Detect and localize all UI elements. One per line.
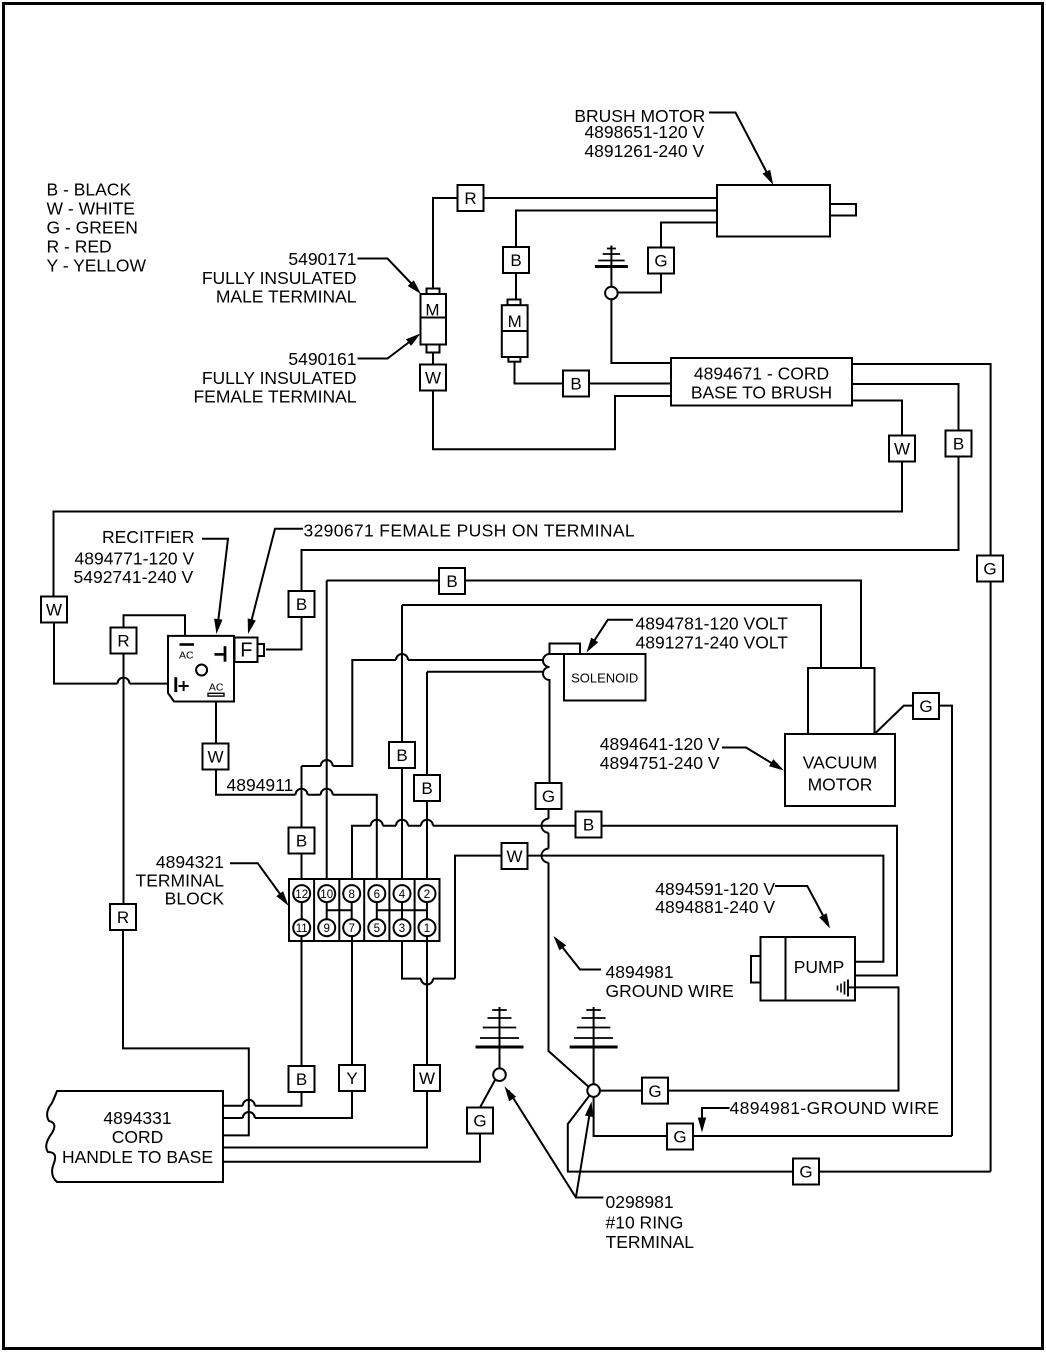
node ring terminal 2 [587,1084,600,1097]
terminal box G3 [536,783,562,809]
svg-text:G: G [983,560,996,579]
svg-text:W: W [46,601,62,620]
svg-text:12: 12 [295,889,308,901]
svg-text:B: B [583,816,594,835]
wire G: cord box to right edge [852,364,991,1172]
leader arrow to F terminal [250,529,303,627]
svg-text:G: G [473,1112,486,1131]
wire G: ring 2 to pump [600,987,899,1090]
terminal box B2 [563,371,589,397]
svg-text:G: G [654,252,667,271]
svg-text:GROUND WIRE: GROUND WIRE [606,981,734,1001]
leader arrow down to ground wire [702,1108,730,1124]
ground symbol bottom left [499,1007,501,1068]
svg-text:MALE TERMINAL: MALE TERMINAL [216,287,357,307]
svg-text:4894671 - CORD: 4894671 - CORD [694,364,829,384]
leader arrow to terminal block [230,863,286,901]
wire B: M2 to cord box [515,362,672,384]
wire W: terminal 3 to pump [402,856,883,979]
wire G: vacuum motor to G box [875,706,914,734]
wire B: terminal 8 to pump [352,826,897,976]
leader arrow to ring terminal 1 [509,1091,604,1198]
svg-text:5492741-240 V: 5492741-240 V [74,567,194,587]
terminal box G4 [913,693,939,719]
wire B: solenoid feed upper [302,660,544,766]
svg-text:11: 11 [296,923,308,935]
wire G: cord handle to ring terminal 1 [223,1080,495,1162]
svg-text:4894751-240 V: 4894751-240 V [600,753,720,773]
svg-text:4894911: 4894911 [227,775,294,795]
svg-text:4894641-120 V: 4894641-120 V [600,734,720,754]
svg-text:B: B [570,375,581,394]
ground symbol top [610,246,612,288]
svg-text:#10 RING: #10 RING [606,1213,684,1233]
hop ground wire over B wire [542,819,549,833]
leader arrow to brush motor [709,113,770,180]
wire G: vacuum motor ground down [939,706,952,1136]
terminal M2 male/female pair [508,300,521,306]
terminal box B8 [414,775,440,801]
svg-text:B: B [421,779,432,798]
component 4894321 terminal block [289,879,440,941]
wire W: cord box to left side [54,401,903,684]
wire G: ring 2 to right edge [568,1096,991,1172]
svg-text:G: G [648,1082,661,1101]
svg-text:R: R [117,632,129,651]
wire G: brush motor to ground node [618,223,717,293]
pump M2 [761,937,856,1001]
terminal box W4 [203,744,229,770]
leader arrow to male terminal [358,259,418,291]
svg-text:F: F [240,639,252,661]
hop 4894911 over V326 [321,789,333,795]
svg-text:AC: AC [209,682,224,694]
svg-text:CORD: CORD [112,1127,164,1147]
leader arrow to solenoid [590,620,634,648]
svg-text:Y: Y [346,1069,357,1088]
svg-text:W: W [425,369,441,388]
terminal box G2 [977,556,1003,582]
solenoid coil and tab [550,644,581,655]
terminal box B6 [289,828,315,854]
svg-text:G: G [542,787,555,806]
svg-text:6: 6 [374,889,380,901]
wire B: terminal 12 riser [301,766,303,885]
terminal box B7 [389,742,415,768]
terminal box B9 [576,812,602,838]
svg-text:5490161: 5490161 [288,349,356,369]
svg-text:RECITFIER: RECITFIER [102,527,194,547]
svg-text:W - WHITE: W - WHITE [47,199,135,219]
svg-text:HANDLE TO BASE: HANDLE TO BASE [62,1147,213,1167]
terminal box R3 [110,904,136,930]
svg-text:FULLY INSULATED: FULLY INSULATED [202,368,357,388]
hop wire W over R wire [118,678,130,684]
wire R: R box to rectifier [124,615,186,635]
node ring terminal top [605,287,618,300]
terminal box G8 [793,1159,819,1185]
rectifier AC mark top [180,643,195,646]
svg-text:0298981: 0298981 [606,1192,674,1212]
leader arrow to rectifier [202,539,228,627]
svg-text:4891261-240 V: 4891261-240 V [584,141,704,161]
wire R: brush motor to male terminal [433,198,717,289]
wire G: node down to cord box [611,299,671,363]
svg-text:G: G [673,1128,686,1147]
leader arrow to ring terminal 2 [576,1107,591,1198]
component 4894671 cord base to brush [671,358,852,406]
terminal box B1 [503,247,529,273]
terminal box W6 [414,1065,440,1091]
terminal box W2 [889,436,915,462]
leader arrow to female terminal [358,337,417,359]
hop upper solenoid wire over V402 [396,654,408,660]
svg-text:W: W [207,748,223,767]
brush motor shaft [830,204,856,216]
svg-text:FULLY INSULATED: FULLY INSULATED [202,268,357,288]
svg-text:G: G [799,1163,812,1182]
svg-text:R: R [464,189,476,208]
leader arrow to ground wire [558,941,602,970]
svg-text:B: B [396,746,407,765]
terminal box W1 [420,365,446,391]
svg-text:4894781-120 VOLT: 4894781-120 VOLT [636,614,789,634]
rectifier center circle [196,665,207,676]
brush motor [717,185,830,237]
svg-text:G - GREEN: G - GREEN [47,218,138,238]
terminal box W5 [502,843,528,869]
solenoid K1 [564,654,646,701]
terminal box W3 [41,597,67,623]
pump ground mark [837,986,839,991]
terminal box R2 [111,628,137,654]
svg-text:TERMINAL: TERMINAL [136,871,225,891]
svg-text:3290671 FEMALE PUSH ON TERMINA: 3290671 FEMALE PUSH ON TERMINAL [304,521,635,541]
svg-text:4894591-120 V: 4894591-120 V [655,879,775,899]
svg-text:8: 8 [348,889,354,901]
svg-text:R - RED: R - RED [47,237,112,257]
component 4894331 cord handle to base [46,1091,223,1182]
rectifier U1 body [168,636,234,702]
wire B: terminal 11 to cord handle [223,935,302,1106]
hop W wire under V427 [421,979,433,985]
terminal box B10 [289,1066,315,1092]
hop B wire over V402 [396,820,408,826]
ground symbol bottom middle [593,1007,595,1084]
svg-text:9: 9 [323,923,329,935]
svg-text:4894881-240 V: 4894881-240 V [655,897,775,917]
leader arrow to pump [775,886,827,924]
svg-text:5490171: 5490171 [288,249,356,269]
svg-text:B - BLACK: B - BLACK [47,180,132,200]
svg-text:2: 2 [424,889,430,901]
wire Y: terminal 7 to cord handle [223,935,352,1118]
terminal box G5 [467,1108,493,1134]
svg-text:B: B [296,1070,307,1089]
svg-text:4894321: 4894321 [156,852,224,872]
svg-text:W: W [894,440,910,459]
svg-text:4894771-120 V: 4894771-120 V [75,549,195,569]
svg-text:Y - YELLOW: Y - YELLOW [47,256,147,276]
wire W: terminal 1 to cord handle [223,935,427,1148]
svg-text:1: 1 [424,923,430,935]
terminal box B3 [946,431,972,457]
terminal box F1 [235,638,258,663]
vacuum motor M1 [808,668,875,734]
wire B: vacuum motor feed [402,605,821,668]
node ring terminal 1 [493,1068,506,1081]
leader arrow to vacuum motor [722,748,781,769]
wire B: terminal 2 riser [426,672,428,885]
hop B wire over V427 [421,820,433,826]
svg-text:4894981: 4894981 [606,962,674,982]
svg-text:W: W [506,847,522,866]
svg-text:4894331: 4894331 [103,1108,171,1128]
svg-text:B: B [296,832,307,851]
svg-text:W: W [419,1069,435,1088]
svg-text:3: 3 [399,923,405,935]
svg-text:4: 4 [399,889,406,901]
wire B: solenoid feed lower [427,671,543,673]
svg-text:4891271-240 VOLT: 4891271-240 VOLT [636,633,789,653]
svg-text:BLOCK: BLOCK [165,889,225,909]
svg-text:B: B [296,595,307,614]
terminal box G7 [667,1124,693,1150]
svg-text:SOLENOID: SOLENOID [571,671,638,686]
terminal box B5 [439,568,465,594]
svg-text:FEMALE TERMINAL: FEMALE TERMINAL [193,387,356,407]
terminal box R1 [458,185,484,211]
hop ground wire over W wire [542,849,549,863]
svg-text:PUMP: PUMP [794,957,845,977]
svg-text:M: M [425,301,439,320]
wire B: cord box to F terminal run [266,384,959,650]
rectifier plus terminal mark [174,677,177,692]
svg-text:R: R [117,908,129,927]
svg-text:10: 10 [320,889,333,901]
svg-text:M: M [508,312,522,331]
terminal box B4 [289,591,315,617]
wire B: terminal 4 riser [401,605,403,885]
terminal box G1 [648,248,674,274]
svg-text:MOTOR: MOTOR [808,775,873,795]
rectifier minus terminal mark [215,653,224,656]
terminal M1 male/female pair [427,289,440,295]
svg-text:4894981-GROUND WIRE: 4894981-GROUND WIRE [730,1098,940,1118]
svg-text:4898651-120 V: 4898651-120 V [584,122,704,142]
hop B wire over R riser [243,1100,255,1106]
wire G: ring 2 to vacuum ground [594,1097,952,1136]
wire B: terminal 10 riser to vacuum motor [327,581,861,886]
wire B: brush motor to terminal M2 [516,211,717,300]
wire G: solenoid ground run [549,809,589,1087]
svg-text:B: B [446,572,457,591]
svg-text:TERMINAL: TERMINAL [606,1232,695,1252]
terminal box Y1 [339,1065,365,1091]
svg-text:B: B [510,251,521,270]
svg-text:7: 7 [348,923,354,935]
hop Y wire over R riser [243,1112,255,1118]
svg-text:B: B [953,435,964,454]
hop 4894911 over V301 [296,789,308,795]
terminal box G6 [642,1078,668,1104]
wire W: M1 to W box [433,353,671,450]
wire R: rectifier area down to cord handle box [123,654,249,1136]
wire W: rectifier to terminal block 4894911 [216,702,377,886]
svg-text:G: G [919,697,932,716]
hop upper solenoid wire over V326 [321,760,333,766]
svg-text:AC: AC [179,650,194,662]
svg-text:BASE TO BRUSH: BASE TO BRUSH [691,383,832,403]
svg-text:5: 5 [374,923,380,935]
hop B wire over V377 [371,820,383,826]
svg-text:VACUUM: VACUUM [803,753,878,773]
